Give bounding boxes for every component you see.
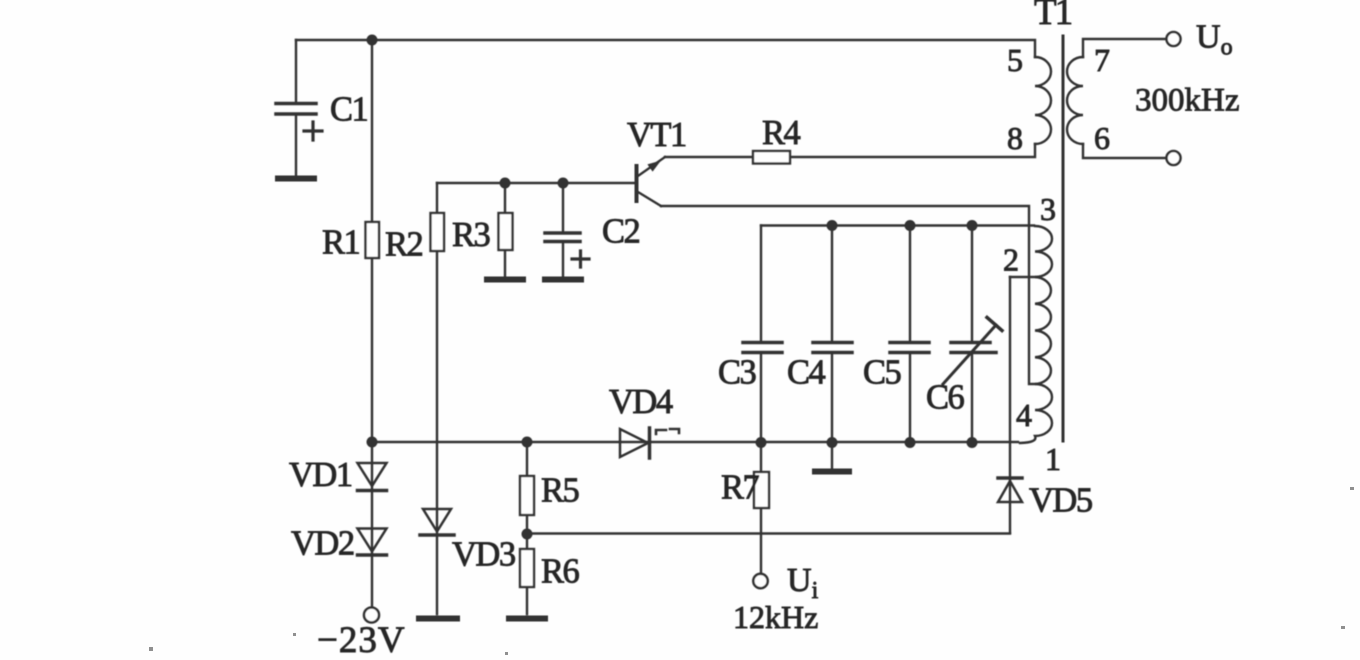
svg-text:VD5: VD5	[1029, 482, 1092, 520]
wire C6 top lead	[971, 226, 973, 342]
svg-text:5: 5	[1007, 42, 1023, 78]
svg-text:R6: R6	[541, 553, 580, 591]
terminal Ui	[753, 574, 767, 588]
variable capacitor C6	[943, 318, 1002, 443]
node dot cap rail / C6	[967, 220, 978, 231]
svg-text:VD4: VD4	[609, 383, 673, 421]
wire tank capacitor top rail	[761, 224, 1034, 226]
svg-text:8: 8	[1007, 120, 1023, 156]
svg-text:T1: T1	[1034, 0, 1072, 33]
svg-text:R4: R4	[762, 114, 801, 152]
svg-text:C6: C6	[926, 379, 965, 417]
wire VD5 branch (tap 2 to feedback rail)	[1009, 277, 1011, 533]
ground bar below R6	[509, 616, 545, 622]
diode VD2	[358, 529, 387, 556]
node dot R5/R6 junction	[522, 529, 533, 540]
wire R3 branch	[504, 183, 506, 277]
svg-text:6: 6	[1094, 120, 1110, 156]
transformer core	[1062, 36, 1065, 441]
resistor R7	[754, 472, 769, 508]
wire C3 top lead	[760, 226, 762, 342]
transformer T1 tank winding 3-2-4-1	[1020, 226, 1052, 443]
wire VD1/VD2 branch to -23V terminal	[371, 442, 373, 607]
capacitor C1	[276, 104, 322, 177]
svg-text:C5: C5	[863, 354, 901, 392]
wire secondary bottom lead	[1083, 144, 1167, 158]
terminal Uo top	[1167, 32, 1181, 46]
wire bottom rail (-23V node to tank bottom)	[372, 441, 1018, 443]
terminal Uo bottom	[1167, 151, 1181, 165]
wire R5/R6 branch	[526, 442, 528, 614]
ground bar below R3	[487, 277, 523, 283]
wire feedback rail R5/R6 node to VD5	[527, 532, 1010, 534]
capacitor C3	[743, 343, 782, 443]
artifact marks right of VD4	[656, 429, 679, 434]
node dot C5 bottom junction	[905, 437, 916, 448]
resistor R6	[520, 549, 534, 587]
svg-text:R7: R7	[721, 469, 760, 507]
ground bar below C1	[278, 176, 314, 182]
resistor R2	[431, 213, 445, 251]
svg-text:4: 4	[1016, 397, 1032, 433]
svg-text:12kHz: 12kHz	[733, 599, 818, 635]
svg-text:C2: C2	[602, 213, 640, 251]
node dot cap rail / C4	[827, 220, 838, 231]
wire R7 branch to Ui	[760, 443, 762, 573]
svg-text:VD3: VD3	[452, 536, 515, 574]
svg-text:3: 3	[1040, 191, 1056, 227]
capacitor C2	[545, 183, 589, 276]
capacitor C4	[813, 343, 852, 443]
wire R2/VD3 branch vertical	[436, 183, 438, 614]
diode VD3	[420, 509, 454, 535]
svg-text:R1: R1	[322, 224, 360, 262]
node dot C3/R7 junction	[756, 437, 767, 448]
svg-text:VT1: VT1	[627, 116, 686, 154]
svg-text:Ui: Ui	[787, 562, 819, 604]
wire collector to R4 and transformer pin8	[665, 144, 1035, 157]
wire tap2 stub	[1010, 276, 1035, 278]
wire emitter to transformer tap 4	[661, 206, 1035, 384]
diode VD5	[998, 478, 1022, 502]
ground bar below VD3	[419, 616, 457, 622]
svg-text:R5: R5	[541, 472, 579, 510]
svg-text:VD1: VD1	[289, 456, 352, 494]
svg-text:C1: C1	[330, 91, 368, 129]
svg-text:300kHz: 300kHz	[1135, 83, 1239, 119]
ground bar below C2	[545, 277, 581, 283]
svg-text:2: 2	[1003, 242, 1019, 278]
wire C1 top lead	[295, 40, 297, 102]
wire top rail from C1/R1 node to transformer pin5	[296, 40, 1035, 57]
wire C4 top lead	[831, 226, 833, 342]
node junction dot base rail / C2	[558, 178, 569, 189]
svg-text:1: 1	[1045, 441, 1061, 477]
resistor R5	[520, 476, 534, 515]
svg-text:−23V: −23V	[317, 620, 406, 660]
transformer T1 primary winding 5-8	[1035, 57, 1051, 144]
diode VD1	[358, 463, 387, 491]
transformer secondary winding 7-6	[1067, 57, 1083, 144]
node dot R1/VD1 junction	[367, 437, 378, 448]
wire secondary top lead to Uo	[1083, 39, 1167, 57]
transistor VT1	[637, 157, 666, 206]
resistor R4	[753, 151, 790, 164]
svg-text:R2: R2	[385, 226, 423, 264]
node A junction dot top rail / R1	[367, 35, 378, 46]
resistor R1	[366, 222, 380, 258]
wire C5 top lead	[909, 226, 911, 342]
resistor R3	[499, 213, 513, 250]
node dot C4 bottom junction	[827, 437, 838, 448]
node junction dot base rail / R3	[500, 178, 511, 189]
svg-text:C4: C4	[787, 354, 826, 392]
node dot cap rail / C5	[905, 220, 916, 231]
wire R1 branch vertical	[371, 40, 373, 442]
wire base rail (R2 top to VT1 base)	[437, 182, 636, 184]
ground bar below C4	[815, 469, 849, 475]
diode VD4	[620, 428, 650, 458]
terminal -23V	[364, 608, 379, 623]
svg-text:R3: R3	[452, 216, 490, 254]
svg-text:VD2: VD2	[291, 525, 354, 563]
svg-text:Uo: Uo	[1196, 19, 1233, 61]
svg-text:C3: C3	[718, 354, 756, 392]
wire C4 ground stem	[831, 442, 833, 468]
capacitor C5	[890, 343, 929, 443]
node dot R5 top junction	[522, 437, 533, 448]
node dot C6 bottom junction	[967, 437, 978, 448]
svg-text:7: 7	[1094, 42, 1110, 78]
